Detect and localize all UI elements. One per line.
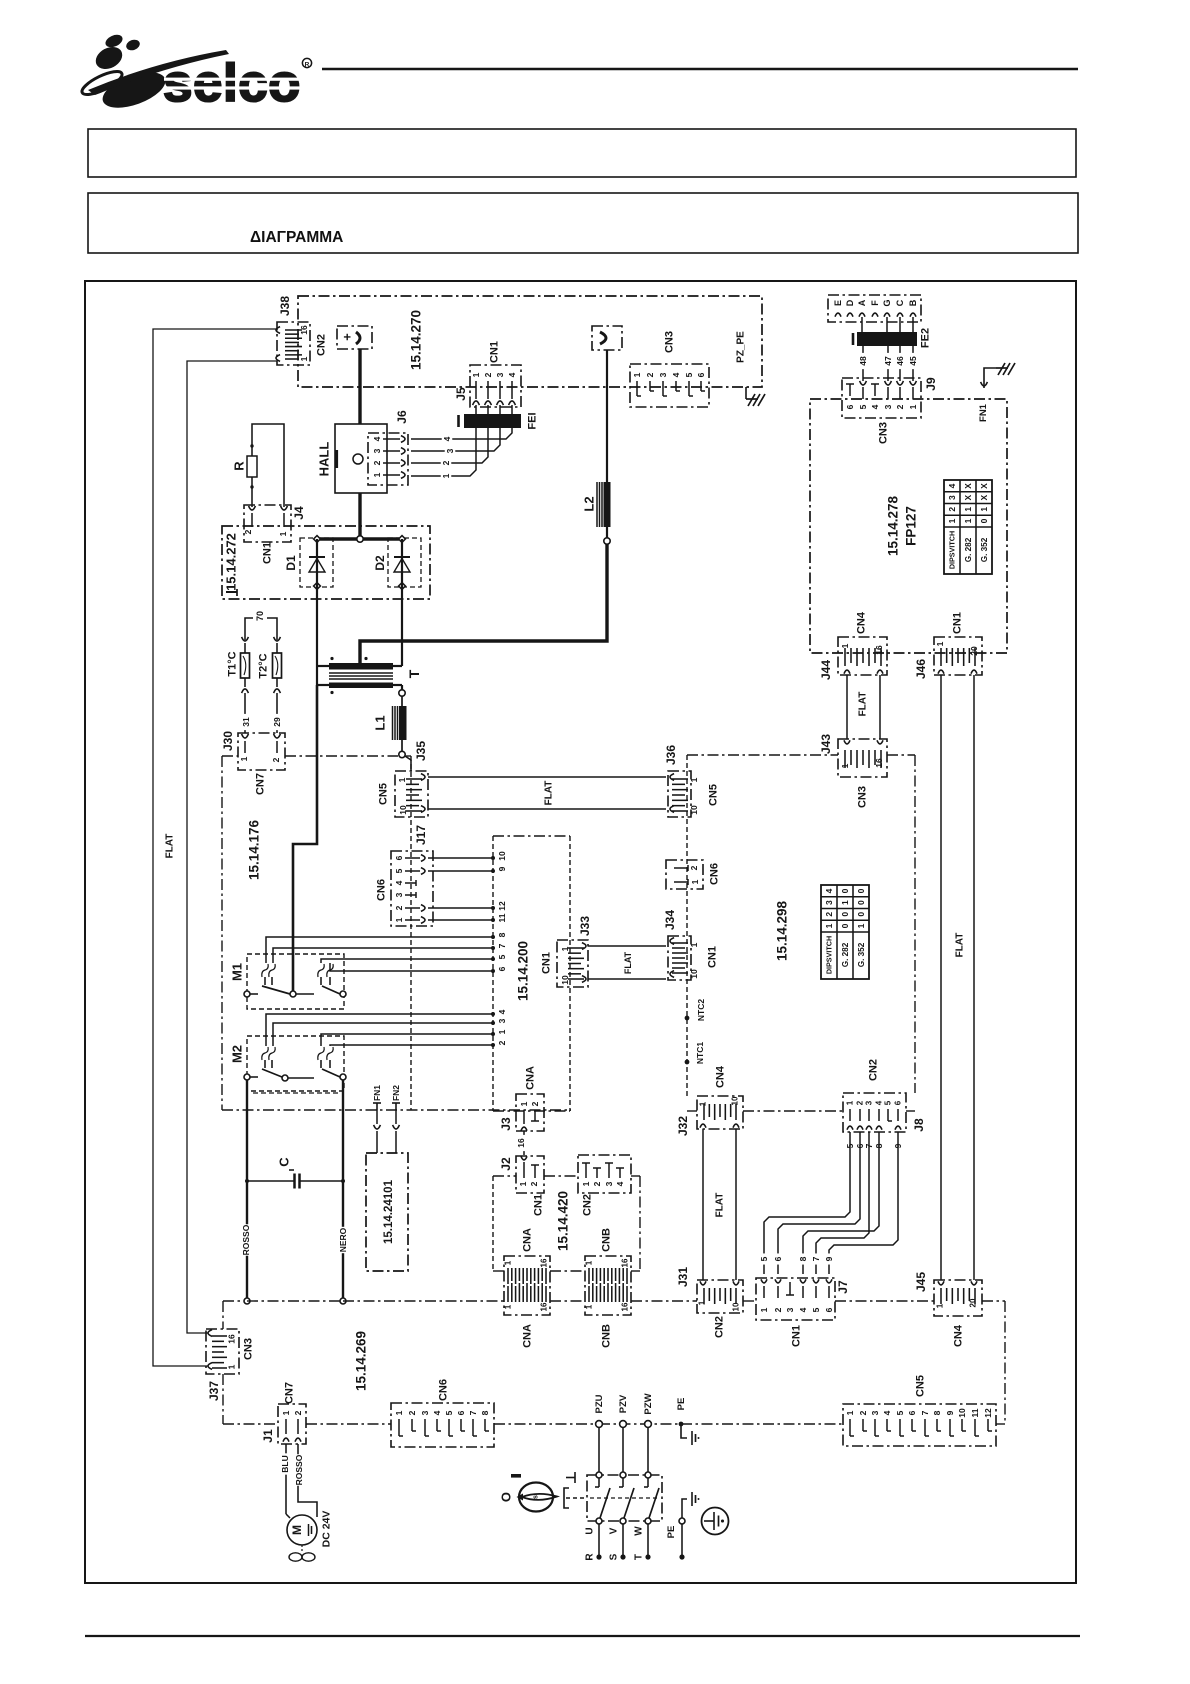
wire to L2 (606, 350, 608, 482)
svg-text:48: 48 (858, 356, 868, 366)
thermal switch T2 (274, 637, 281, 641)
svg-text:J9: J9 (924, 377, 938, 391)
wire NERO M2 to board 269 (342, 1080, 344, 1298)
svg-text:CN1: CN1 (952, 612, 964, 634)
svg-text:15.14.272: 15.14.272 (223, 533, 238, 591)
svg-text:PE: PE (666, 1526, 677, 1539)
svg-text:CN1: CN1 (791, 1325, 803, 1347)
round connector on 15.14.270 (592, 326, 622, 350)
svg-text:9: 9 (945, 1410, 955, 1415)
svg-text:L1: L1 (372, 715, 387, 730)
svg-text:J5: J5 (454, 387, 468, 401)
svg-text:2: 2 (645, 372, 655, 377)
svg-text:PZV: PZV (618, 1394, 629, 1413)
relay M2 (247, 1036, 344, 1091)
svg-text:L2: L2 (581, 496, 596, 511)
wire terminal to HALL (358, 349, 361, 424)
svg-text:DC 24V: DC 24V (321, 1511, 333, 1548)
svg-text:16: 16 (621, 1302, 630, 1311)
svg-text:1: 1 (845, 1410, 855, 1415)
svg-text:J35: J35 (414, 741, 428, 761)
connector CNB 16pin (585, 1256, 631, 1315)
svg-text:0: 0 (840, 888, 850, 893)
svg-text:6: 6 (773, 1256, 783, 1261)
resistor R (252, 424, 284, 507)
svg-text:CN3: CN3 (243, 1338, 255, 1360)
svg-text:3: 3 (372, 448, 382, 453)
svg-text:D: D (845, 299, 855, 306)
svg-text:12: 12 (497, 901, 507, 911)
svg-text:16: 16 (516, 1138, 526, 1148)
svg-text:CN4: CN4 (953, 1324, 965, 1347)
svg-text:31: 31 (241, 717, 251, 727)
svg-text:1: 1 (504, 1260, 513, 1265)
inductor L2 (604, 482, 611, 527)
filter FE2 (857, 332, 917, 346)
svg-text:1: 1 (585, 1260, 594, 1265)
svg-text:HALL: HALL (316, 442, 331, 477)
wire BLU (285, 1444, 287, 1514)
svg-text:FLAT: FLAT (623, 951, 633, 974)
svg-text:2: 2 (372, 460, 382, 465)
svg-text:1: 1 (497, 1029, 507, 1034)
connector J36 CN5 (668, 771, 691, 817)
junction wire D1-D2 with HALL feed (320, 537, 399, 540)
svg-text:11: 11 (970, 1408, 980, 1417)
svg-text:2: 2 (497, 1040, 507, 1045)
svg-text:10: 10 (497, 851, 507, 861)
svg-text:FN2: FN2 (391, 1085, 401, 1101)
svg-text:6: 6 (824, 1307, 834, 1312)
svg-text:8: 8 (798, 1256, 808, 1261)
connector J34 CN1 (668, 936, 691, 980)
footer rule (85, 1635, 1080, 1637)
svg-text:2: 2 (529, 1181, 539, 1186)
wire D1 to transformer (316, 539, 318, 685)
svg-text:1: 1 (689, 942, 699, 947)
svg-text:4: 4 (824, 888, 834, 893)
svg-text:PZU: PZU (594, 1394, 605, 1413)
svg-text:7: 7 (920, 1410, 930, 1415)
svg-text:C: C (276, 1157, 291, 1167)
svg-text:5: 5 (858, 404, 868, 409)
svg-text:1: 1 (226, 1364, 236, 1369)
svg-text:1: 1 (560, 946, 570, 951)
switch knob (519, 1483, 553, 1512)
connector J2 CN1 (516, 1156, 544, 1193)
svg-text:1: 1 (441, 473, 451, 478)
svg-text:5: 5 (684, 372, 694, 377)
svg-text:15.14.24101: 15.14.24101 (383, 1179, 395, 1244)
staircase wires J8 to J7 (764, 1132, 850, 1274)
svg-text:3: 3 (495, 372, 505, 377)
connector CN5 12pin on 269 (843, 1404, 996, 1446)
svg-text:CN7: CN7 (284, 1382, 296, 1404)
header rule (322, 68, 1078, 71)
svg-text:4: 4 (882, 1410, 892, 1415)
svg-text:20: 20 (969, 1298, 978, 1307)
svg-text:ROSSO: ROSSO (241, 1224, 251, 1255)
svg-text:1: 1 (519, 1101, 529, 1106)
svg-text:1: 1 (979, 507, 989, 512)
svg-text:8: 8 (480, 1410, 490, 1415)
svg-text:J38: J38 (278, 296, 292, 316)
transformer centre tap wire to L2 (360, 544, 607, 663)
svg-text:5: 5 (394, 868, 404, 873)
title box 2 (88, 193, 1078, 253)
svg-text:1: 1 (947, 518, 957, 523)
wire L1 to CN5 pin1 (405, 756, 411, 771)
svg-text:4: 4 (615, 1181, 625, 1186)
svg-text:NTC1: NTC1 (695, 1042, 705, 1064)
svg-text:16: 16 (226, 1334, 236, 1344)
svg-text:FEI: FEI (527, 412, 539, 429)
svg-text:1: 1 (471, 372, 481, 377)
svg-text:16: 16 (621, 1258, 630, 1267)
svg-text:4: 4 (798, 1307, 808, 1312)
board 15.14.269 outline (223, 1300, 243, 1302)
svg-text:CN6: CN6 (376, 879, 388, 901)
svg-text:1: 1 (935, 641, 945, 646)
svg-text:6: 6 (497, 966, 507, 971)
svg-text:3: 3 (865, 1100, 874, 1105)
svg-text:X: X (963, 483, 973, 489)
svg-text:J6: J6 (395, 410, 409, 424)
svg-text:8: 8 (497, 932, 507, 937)
svg-text:V: V (608, 1527, 619, 1534)
svg-text:4: 4 (507, 372, 517, 377)
svg-text:29: 29 (272, 717, 282, 727)
svg-text:1: 1 (372, 472, 382, 477)
svg-text:CN5: CN5 (708, 784, 720, 806)
svg-text:0: 0 (979, 518, 989, 523)
svg-text:CNB: CNB (601, 1324, 613, 1348)
svg-text:J30: J30 (221, 731, 235, 751)
svg-text:G. 352: G. 352 (857, 942, 866, 967)
motor M DC 24V (287, 1515, 317, 1545)
svg-text:J45: J45 (914, 1272, 928, 1292)
wire D2 to transformer (401, 539, 403, 666)
wires letters to FE2 (861, 317, 863, 332)
wire J3 to J2 (523, 1131, 525, 1155)
connector CN2 on 420 (578, 1155, 631, 1193)
wire transformer to L1 (393, 684, 402, 686)
FN1 pin with ground (981, 382, 988, 386)
svg-text:7: 7 (497, 943, 507, 948)
connector J32 CN4 (697, 1096, 743, 1129)
svg-text:1: 1 (394, 1410, 404, 1415)
svg-text:CN5: CN5 (915, 1375, 927, 1397)
svg-text:2: 2 (394, 905, 404, 910)
svg-text:D2: D2 (373, 555, 387, 571)
svg-text:16: 16 (874, 645, 884, 655)
svg-text:O: O (498, 1492, 513, 1502)
svg-text:4: 4 (870, 404, 880, 409)
svg-text:1: 1 (699, 1101, 708, 1106)
svg-text:CN7: CN7 (255, 773, 267, 795)
svg-text:2: 2 (895, 404, 905, 409)
connector J45 CN4 (934, 1280, 982, 1316)
svg-text:G. 282: G. 282 (964, 537, 973, 562)
connector J44 CN4 (838, 637, 887, 675)
FLAT wires J44 to J43 (846, 675, 848, 739)
board 15.14.24101 (366, 1153, 408, 1271)
svg-text:C: C (895, 299, 905, 306)
svg-text:7: 7 (811, 1256, 821, 1261)
svg-text:0: 0 (840, 923, 850, 928)
svg-text:FN1: FN1 (978, 403, 989, 422)
wires J17 to board 200 edge (428, 857, 493, 859)
board 15.14.176 outline (222, 755, 238, 757)
svg-text:J3: J3 (499, 1117, 513, 1131)
svg-text:ΔΙΑΓΡΑΜΜΑ: ΔΙΑΓΡΑΜΜΑ (250, 229, 343, 246)
svg-text:CN1: CN1 (489, 341, 501, 363)
board 15.14.272 outline (222, 526, 430, 599)
svg-text:5: 5 (811, 1307, 821, 1312)
connector J17 CN6 (391, 851, 433, 926)
svg-text:G. 282: G. 282 (841, 942, 850, 967)
svg-text:DIPSVITCH: DIPSVITCH (824, 936, 833, 974)
svg-text:CN3: CN3 (878, 422, 890, 444)
svg-text:1: 1 (394, 917, 404, 922)
svg-text:R: R (584, 1553, 595, 1561)
svg-text:1: 1 (281, 1410, 291, 1415)
svg-text:1: 1 (908, 404, 918, 409)
svg-text:s: s (532, 1495, 539, 1499)
svg-text:G. 352: G. 352 (980, 537, 989, 562)
connector J7 CN1 (756, 1278, 835, 1320)
svg-text:3: 3 (445, 448, 455, 453)
svg-text:J31: J31 (676, 1267, 690, 1287)
svg-text:S: S (608, 1553, 619, 1560)
svg-text:BLU: BLU (280, 1455, 290, 1472)
svg-text:16: 16 (874, 758, 884, 768)
wire ROSSO M2 to board 269 (246, 1080, 248, 1298)
thick wire transformer to M1 (293, 685, 317, 991)
svg-text:3: 3 (420, 1410, 430, 1415)
svg-text:11: 11 (497, 913, 507, 922)
svg-text:15.14.278: 15.14.278 (886, 495, 901, 556)
svg-text:1: 1 (299, 356, 309, 361)
svg-text:7: 7 (468, 1410, 478, 1415)
svg-text:0: 0 (856, 912, 866, 917)
svg-text:CN4: CN4 (715, 1065, 727, 1088)
svg-text:T1°C: T1°C (227, 651, 239, 676)
svg-text:1: 1 (856, 923, 866, 928)
plus output terminal (337, 326, 372, 349)
svg-text:2: 2 (856, 1100, 865, 1105)
svg-text:5: 5 (759, 1256, 769, 1261)
svg-text:M2: M2 (229, 1045, 244, 1063)
svg-text:X: X (979, 483, 989, 489)
svg-text:T: T (633, 1554, 644, 1560)
svg-text:PZW: PZW (643, 1393, 654, 1414)
FN1 FN2 stubs (376, 1103, 378, 1110)
connector CN6 2pin on 298 (666, 860, 703, 889)
svg-text:6: 6 (696, 372, 706, 377)
svg-text:47: 47 (883, 356, 893, 366)
wires FEI to J6 (411, 428, 476, 476)
svg-text:T: T (406, 669, 422, 678)
board 15.14.200 outline (493, 835, 570, 837)
svg-text:3: 3 (870, 1410, 880, 1415)
svg-text:1: 1 (581, 1181, 591, 1186)
svg-text:1: 1 (936, 1303, 945, 1308)
title box 1 (88, 129, 1076, 177)
svg-text:12: 12 (983, 1408, 993, 1418)
NTC test points (685, 1016, 690, 1021)
svg-text:DIPSVITCH: DIPSVITCH (947, 531, 956, 569)
connector CNA 16pin (504, 1256, 550, 1315)
svg-text:U: U (584, 1527, 595, 1534)
wires board200 to M2 (266, 1014, 493, 1046)
svg-text:J33: J33 (578, 916, 592, 936)
connector J1 CN7 (278, 1404, 306, 1444)
switch contact box (587, 1475, 662, 1521)
selco logo (79, 32, 311, 115)
connector J9 CN3 (842, 378, 921, 418)
svg-text:selco: selco (163, 54, 301, 113)
svg-text:R: R (305, 61, 310, 68)
svg-text:R: R (231, 461, 246, 471)
svg-text:15.14.269: 15.14.269 (354, 1331, 369, 1391)
svg-text:16: 16 (540, 1258, 549, 1267)
svg-text:CN6: CN6 (438, 1379, 450, 1401)
svg-text:3: 3 (947, 495, 957, 500)
svg-text:1: 1 (632, 372, 642, 377)
svg-text:ROSSO: ROSSO (294, 1454, 304, 1485)
wire ROSSO to motor (298, 1444, 317, 1517)
connector J46 CN1 (934, 637, 982, 675)
earth circle symbol (702, 1508, 729, 1535)
FN wires to 24101 (376, 1110, 378, 1124)
svg-text:6: 6 (456, 1410, 466, 1415)
svg-text:CN1: CN1 (707, 946, 719, 968)
svg-text:1: 1 (824, 923, 834, 928)
FLAT wires J46 to J45 (940, 675, 942, 1280)
svg-text:10: 10 (398, 805, 408, 815)
HALL sensor block (335, 424, 387, 493)
svg-text:2: 2 (407, 1410, 417, 1415)
svg-text:M: M (290, 1525, 304, 1535)
svg-text:T2°C: T2°C (258, 653, 270, 678)
svg-text:CN2: CN2 (316, 334, 328, 356)
svg-text:J32: J32 (676, 1116, 690, 1136)
svg-text:J4: J4 (292, 506, 306, 520)
svg-text:3: 3 (604, 1181, 614, 1186)
svg-text:CN5: CN5 (378, 783, 390, 805)
svg-text:4: 4 (947, 483, 957, 488)
inductor L1 (399, 706, 407, 740)
connector J43 CN3 (838, 739, 887, 777)
svg-text:J36: J36 (664, 745, 678, 765)
svg-text:B: B (908, 299, 918, 306)
connector J38 CN2 (277, 322, 310, 365)
svg-text:3: 3 (497, 1018, 507, 1023)
svg-text:2: 2 (293, 1410, 303, 1415)
cable letters connector (828, 295, 921, 322)
svg-text:CNA: CNA (525, 1066, 537, 1090)
svg-text:3: 3 (785, 1307, 795, 1312)
svg-text:10: 10 (957, 1408, 967, 1418)
svg-text:FLAT: FLAT (857, 692, 868, 717)
svg-text:J7: J7 (836, 1280, 850, 1294)
svg-text:J1: J1 (261, 1429, 275, 1443)
svg-text:3: 3 (394, 892, 404, 897)
svg-text:E: E (833, 300, 843, 306)
svg-text:CN1: CN1 (533, 1194, 545, 1216)
svg-text:2: 2 (824, 912, 834, 917)
svg-text:10: 10 (689, 969, 699, 979)
svg-text:J46: J46 (914, 659, 928, 679)
svg-text:CN2: CN2 (714, 1316, 726, 1338)
svg-text:NTC2: NTC2 (696, 999, 706, 1021)
svg-text:4: 4 (875, 1100, 884, 1105)
FLAT wires J33 to J34 (588, 945, 666, 947)
svg-text:2: 2 (243, 529, 253, 534)
svg-text:2: 2 (441, 460, 451, 465)
svg-text:70: 70 (255, 611, 265, 621)
svg-text:F: F (870, 300, 880, 306)
svg-text:16: 16 (540, 1302, 549, 1311)
FLAT wires J32 to J31 (702, 1129, 704, 1280)
temp bracket 70 (245, 618, 253, 640)
svg-text:1: 1 (239, 756, 249, 761)
board 15.14.278 outline (810, 399, 1007, 653)
board 15.14.270 outline (298, 296, 762, 387)
connector J8 CN2 (843, 1093, 906, 1132)
svg-text:CN6: CN6 (709, 863, 721, 885)
svg-text:46: 46 (895, 356, 905, 366)
svg-text:6: 6 (394, 855, 404, 860)
svg-text:1: 1 (963, 518, 973, 523)
svg-text:1: 1 (585, 1304, 594, 1309)
svg-text:1: 1 (846, 1100, 855, 1105)
svg-text:2: 2 (858, 1410, 868, 1415)
svg-text:5: 5 (444, 1410, 454, 1415)
svg-text:6: 6 (894, 1100, 903, 1105)
connector J30 CN7 (238, 733, 285, 770)
FLAT wires J35 to J36 (428, 776, 666, 778)
connector J35 CN5 (395, 771, 428, 817)
board 15.14.298 outline (687, 754, 838, 756)
dipswitch table 15.14.298 (821, 885, 869, 979)
svg-text:1: 1 (690, 879, 700, 884)
diode D1 (300, 538, 333, 587)
wire numbers J8 (845, 1140, 856, 1151)
svg-text:16: 16 (299, 325, 309, 335)
connector J3 CNA (516, 1094, 544, 1131)
svg-text:6: 6 (907, 1410, 917, 1415)
switch output wires U V W (598, 1524, 600, 1557)
svg-text:CN2: CN2 (582, 1194, 594, 1216)
svg-text:1: 1 (840, 763, 850, 768)
svg-text:J43: J43 (819, 734, 833, 754)
svg-text:FLAT: FLAT (714, 1193, 725, 1218)
connector J4 CN1 (244, 505, 291, 542)
svg-text:CN1: CN1 (262, 542, 274, 564)
svg-text:CNA: CNA (522, 1324, 534, 1348)
wires board200 to M1 (266, 937, 493, 963)
svg-text:A: A (857, 299, 867, 306)
svg-text:3: 3 (824, 900, 834, 905)
svg-text:X: X (963, 494, 973, 500)
svg-text:9: 9 (824, 1256, 834, 1261)
connector J6 (368, 433, 408, 485)
svg-text:FE2: FE2 (920, 328, 932, 348)
svg-text:2: 2 (530, 1101, 540, 1106)
svg-text:CNA: CNA (522, 1228, 534, 1252)
